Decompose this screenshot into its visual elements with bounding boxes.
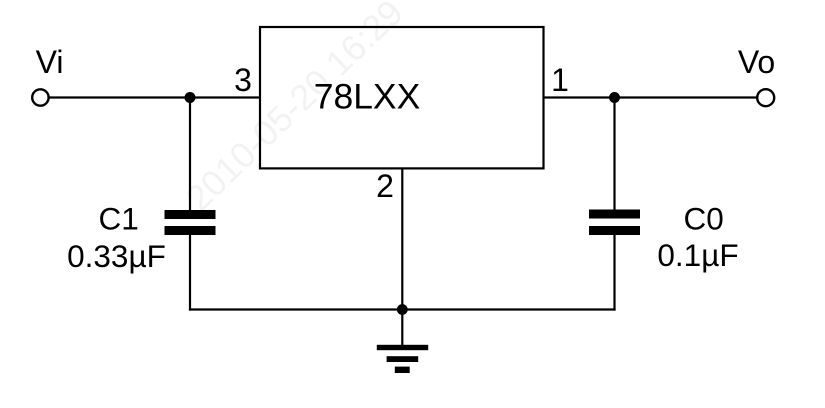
ground bar 2 [387, 356, 419, 362]
wire C1 bottom lead [189, 234, 191, 311]
terminal Vo [757, 89, 774, 106]
capacitor C1 bottom plate [165, 226, 216, 235]
wire pin 2 to ground [401, 168, 403, 346]
wire C0 bottom lead [613, 234, 615, 311]
capacitor C1 top plate [165, 210, 216, 219]
capacitor C0 top plate [589, 210, 640, 219]
svg-text:C0: C0 [683, 200, 723, 236]
svg-text:Vi: Vi [36, 44, 64, 80]
wire input from terminal to regulator [40, 96, 260, 98]
wire bottom ground rail [189, 308, 616, 310]
wire output from regulator to terminal [543, 96, 765, 98]
svg-text:1: 1 [551, 62, 569, 98]
wire C1 top lead [189, 98, 191, 212]
svg-text:3: 3 [234, 62, 252, 98]
svg-text:2: 2 [376, 168, 394, 204]
svg-text:0.1µF: 0.1µF [657, 237, 738, 273]
terminal Vi [32, 89, 48, 105]
node A junction input [185, 92, 196, 103]
regulator U1 78LXX body [260, 27, 544, 168]
capacitor C0 bottom plate [589, 226, 640, 235]
ground bar 3 [395, 367, 410, 373]
node B junction output [609, 92, 620, 103]
svg-text:0.33µF: 0.33µF [67, 238, 166, 274]
wire C0 top lead [613, 98, 615, 211]
svg-text:C1: C1 [99, 201, 139, 237]
ground bar 1 [377, 345, 428, 350]
svg-text:Vo: Vo [738, 44, 775, 80]
node GND junction [397, 304, 408, 315]
